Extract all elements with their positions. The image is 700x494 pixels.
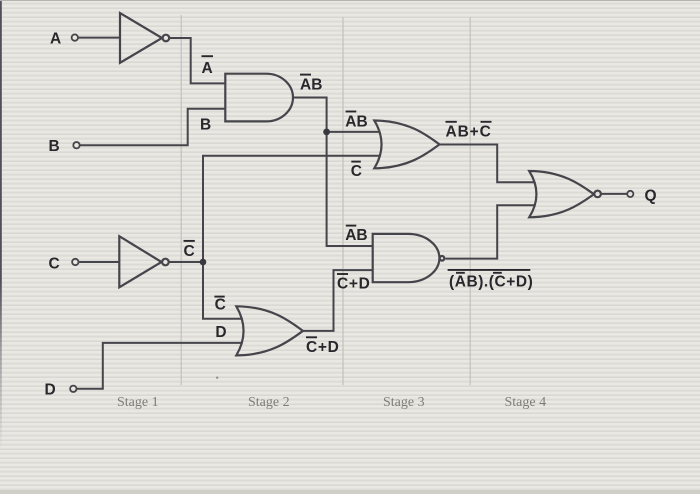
svg-text:AB: AB (345, 227, 367, 244)
svg-text:Stage 2: Stage 2 (248, 395, 290, 410)
svg-text:Stage 1: Stage 1 (117, 395, 159, 410)
svg-text:C+D: C+D (337, 276, 371, 293)
svg-text:Q: Q (645, 188, 657, 205)
svg-text:B: B (49, 138, 60, 155)
svg-text:AB: AB (345, 114, 367, 131)
svg-text:C+D: C+D (306, 339, 340, 356)
svg-text:C: C (351, 163, 362, 180)
svg-text:(AB).(C+D): (AB).(C+D) (449, 274, 533, 291)
svg-text:D: D (215, 324, 226, 341)
svg-text:A: A (202, 60, 213, 77)
svg-text:Stage 3: Stage 3 (383, 395, 425, 410)
svg-text:C: C (184, 243, 195, 260)
svg-text:Stage 4: Stage 4 (505, 395, 547, 410)
svg-text:AB+C: AB+C (446, 124, 492, 141)
svg-text:B: B (200, 117, 211, 134)
svg-text:AB: AB (300, 77, 322, 94)
svg-text:C: C (215, 297, 226, 314)
svg-text:D: D (45, 382, 56, 399)
svg-text:A: A (50, 31, 61, 48)
svg-text:C: C (49, 256, 60, 273)
